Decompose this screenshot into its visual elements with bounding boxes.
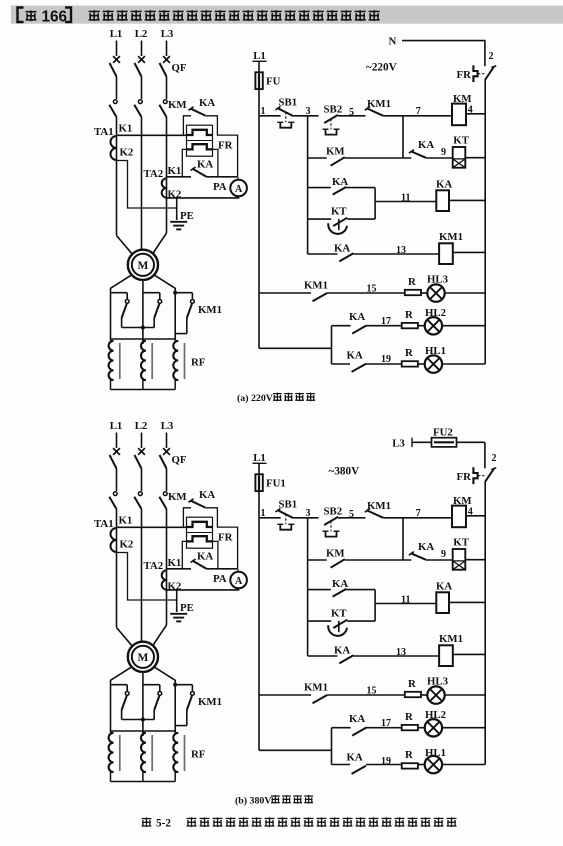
wire KM1 coil to rail (control b) [453,653,485,655]
svg-text:QF: QF [172,62,187,74]
frequency-sensitive rheostat RF (b) [111,730,176,732]
wire parallel join (control b) [374,590,376,622]
svg-text:K1: K1 [168,165,182,177]
svg-text:SB2: SB2 [324,104,343,116]
wire rotor right (a) [154,275,175,339]
wire PE drop (a) [176,198,178,220]
svg-text:TA2: TA2 [144,168,164,180]
terminal x-mark (b) [138,448,145,455]
contactor coil KM (control b) [452,506,466,528]
resistor R row HL1 (control a) [402,361,418,366]
svg-text:KM: KM [453,495,472,507]
svg-text:KT: KT [331,608,347,620]
svg-text:K1: K1 [168,557,182,569]
wire heater2 left leg (a) [182,149,186,176]
wire RF bottom bus (a) [111,389,176,391]
svg-text:QF: QF [172,454,187,466]
wire lamp branch vertical (control a) [331,326,333,364]
wire L2 down (a) [141,117,143,250]
lamp HL2 (control b) [418,727,425,729]
svg-text:11: 11 [401,594,410,605]
wire rotor middle (a) [142,280,144,344]
svg-text:K2: K2 [120,539,134,551]
svg-text:15: 15 [367,685,377,696]
svg-text:L3: L3 [161,420,174,432]
svg-text:19: 19 [381,354,391,365]
wire rotor left (a) [111,275,132,339]
relay contact KA (CT lower) (b) [191,559,196,563]
wire lamp branch vertical (control b) [331,728,333,765]
svg-text:L3: L3 [161,28,174,40]
time relay coil KT (control a) [453,147,466,168]
wire phase stub (a) [141,41,143,57]
time relay coil KT (control b) [453,549,466,570]
svg-text:KA: KA [334,644,350,656]
wire to KA coil (control a) [375,201,436,203]
svg-text:N: N [389,36,397,48]
signal row HL3: contact KM1 (control a) [259,292,311,294]
current transformer TA1 (b) [111,528,117,552]
wire motor feeds (a) [117,236,133,254]
wire TA1 K2 tap (b) [117,553,177,601]
title bar background [11,6,563,24]
wire TA2 K1 tap (a) [167,176,192,178]
wire KM coil to rail (control a) [466,113,485,115]
frequency-sensitive rheostat RF (a) [111,338,176,340]
signal row HL2: contact KA (control a) [332,325,351,327]
svg-text:FR: FR [218,532,233,544]
wire node3 rail (control b) [307,518,309,656]
current transformer TA2 (a) [162,178,167,197]
svg-text:KM1: KM1 [198,696,222,708]
wire L1 rail upper (control b) [258,463,260,750]
self-hold contact KM (control b) [308,559,327,561]
svg-text:PA: PA [213,573,227,585]
svg-text:KT: KT [453,537,469,549]
svg-text:KA: KA [436,179,452,191]
wire L1 down (b) [116,509,118,628]
svg-text:KM1: KM1 [439,633,463,645]
wire heater2 right leg (b) [213,541,218,568]
svg-text:3: 3 [306,106,311,117]
relay contact KA row3 (control a) [308,187,331,189]
wire FU2 to FR (control b) [484,442,486,468]
svg-text:KA: KA [347,349,363,361]
svg-text:11: 11 [401,192,410,203]
svg-text:SB1: SB1 [279,498,298,510]
svg-text:TA1: TA1 [94,518,114,530]
svg-text:TA1: TA1 [94,126,114,138]
svg-text:M: M [137,652,148,664]
wire L1 rail upper (control a) [258,61,260,348]
svg-text:KA: KA [199,489,215,501]
title text 二次保护自动切除频敏变阻器降压启动控制电路 [89,10,100,21]
svg-text:13: 13 [396,245,406,256]
terminal x-mark (b) [113,448,120,455]
thermal relay FR heaters box (b) [187,517,213,548]
svg-text:HL1: HL1 [425,345,446,357]
svg-text:(a) 220V: (a) 220V [237,393,274,404]
wire rung1 c-coil (control b) [384,517,453,519]
signal row HL1: contact KA (control b) [332,764,351,766]
svg-text:R: R [408,678,416,690]
svg-text:M: M [137,260,148,272]
wire L3 down (b) [166,509,168,625]
wire rung1 b-c (control b) [338,517,366,519]
wire L1 down (a) [116,117,118,236]
wire lamp feeder (control a) [259,347,332,349]
svg-text:HL1: HL1 [425,747,446,759]
wire PA bottom / TA2 K2 return (b) [167,588,239,590]
relay contact KA row4 (control a) [308,253,338,255]
svg-text:L1: L1 [253,50,266,62]
signal row HL1: contact KA (control a) [332,363,351,365]
terminal x-mark (a) [113,56,120,63]
terminal tick L1 (control a) [253,60,267,62]
svg-text:SB1: SB1 [279,96,298,108]
relay contact KA (CT lower) (a) [191,167,196,171]
svg-text:7: 7 [416,508,421,519]
svg-text:R: R [408,276,416,288]
svg-text:FR: FR [218,140,233,152]
relay contact KA (CT upper) (b) [183,508,191,528]
terminal x-mark (a) [163,56,170,63]
motor M (b) [128,642,158,672]
svg-text:17: 17 [381,316,391,327]
svg-text:166: 166 [42,8,68,25]
svg-text:KM: KM [168,491,187,503]
svg-text:9: 9 [441,549,446,560]
fuse FU2 (control b) [412,441,485,443]
relay contact KA row4 (control b) [308,655,338,657]
svg-text:(b) 380V: (b) 380V [235,796,272,807]
svg-text:KM: KM [453,93,472,105]
svg-text:17: 17 [381,718,391,729]
svg-text:HL2: HL2 [425,307,446,319]
wire rotor right (b) [154,667,175,731]
terminal x-mark (b) [163,448,170,455]
wire phase stub (b) [166,433,168,449]
svg-text:HL3: HL3 [427,273,449,285]
svg-text:KA: KA [332,578,348,590]
svg-text:HL2: HL2 [425,709,446,721]
svg-text:KA: KA [332,176,348,188]
wire rung1 b-c (control a) [338,115,366,117]
svg-text:L2: L2 [135,28,148,40]
wire node3 rail (control a) [307,116,309,254]
svg-text:K2: K2 [120,147,134,159]
current transformer TA1 (a) [111,136,117,160]
relay coil KA (control b) [436,592,449,613]
svg-text:HL3: HL3 [427,675,449,687]
svg-text:2: 2 [492,453,497,464]
svg-text:KA: KA [347,751,363,763]
svg-text:RF: RF [191,357,206,369]
svg-text:A: A [235,576,243,587]
circuit breaker QF (a) [110,63,117,77]
svg-text:L1: L1 [253,452,266,464]
wire KM1 coil to rail (control a) [453,251,485,253]
svg-text:FR: FR [457,471,472,483]
wire rung1 branch (control a) [402,116,404,158]
thermal relay contact FR (control b) [473,467,477,484]
resistor R row HL2 (control a) [402,323,418,328]
wire L2 down (b) [141,509,143,642]
fuse FU (control a) [255,72,262,89]
lamp HL3 (control b) [421,694,427,696]
contactor coil KM1 (control a) [439,243,453,264]
svg-text:3: 3 [306,508,311,519]
fuse FU1 (control b) [255,474,262,491]
title text 【例 166】 [18,8,24,23]
svg-text:KM1: KM1 [304,280,328,292]
lamp HL1 (control a) [418,363,425,365]
lamp HL2 (control a) [418,325,425,327]
relay contact KA (CT upper) (a) [183,116,191,136]
svg-text:KM1: KM1 [367,98,391,110]
svg-text:RF: RF [191,749,206,761]
lamp HL1 (control b) [418,764,425,766]
svg-text:KM: KM [326,547,345,559]
wire L3 down (a) [166,117,168,233]
svg-text:L1: L1 [110,420,123,432]
svg-text:9: 9 [441,147,446,158]
svg-text:FR: FR [457,69,472,81]
svg-text:KA: KA [349,713,365,725]
wire KA coil to rail (control b) [449,601,485,603]
wire PE drop (b) [176,590,178,612]
svg-text:7: 7 [416,106,421,117]
signal row HL3: contact KM1 (control b) [259,694,311,696]
self-hold contact KM (control a) [308,157,327,159]
svg-text:L3: L3 [392,438,405,450]
contactor coil KM1 (control b) [439,645,453,666]
svg-text:TA2: TA2 [144,560,164,572]
contactor KM1 rotor contacts (a) [111,292,128,294]
svg-text:13: 13 [396,647,406,658]
svg-text:~380V: ~380V [329,466,360,478]
wire rung1 a-b (control a) [293,115,318,117]
svg-text:KA: KA [197,159,213,171]
contactor coil KM (control a) [452,104,466,126]
wire lamp feeder (control b) [259,749,332,751]
relay contact KA row3 (control b) [308,589,331,591]
svg-text:FU: FU [266,76,281,88]
svg-text:PA: PA [213,181,227,193]
ammeter PA (a) [238,177,239,180]
svg-text:~220V: ~220V [366,62,397,74]
svg-text:KM1: KM1 [304,682,328,694]
svg-text:KM: KM [168,99,187,111]
ground PE (a) [170,221,187,223]
resistor R row HL3 (control a) [405,290,421,295]
svg-text:KT: KT [453,135,469,147]
contactor KM main contacts (b) [113,492,117,496]
svg-text:K1: K1 [119,123,133,135]
svg-text:KA: KA [197,551,213,563]
svg-text:PE: PE [180,602,194,614]
wire TA1 K1 tap (b) [117,526,187,528]
svg-text:SB2: SB2 [324,506,343,518]
wire N feed (control a) [402,41,485,67]
wire to KA coil (control b) [375,603,436,605]
wire rung1 c-coil (control a) [384,115,453,117]
motor M (a) [128,250,158,280]
wire TA1 K1 tap (a) [117,134,187,136]
wire parallel join (control a) [374,188,376,220]
wire motor feeds (b) [117,628,133,646]
svg-text:FU2: FU2 [433,426,453,438]
wire right rail (control b) [484,482,486,765]
time contact KT delayed (control b) [308,620,332,622]
wire rotor middle (b) [142,672,144,736]
terminal x-mark (a) [138,56,145,63]
svg-text:KA: KA [199,97,215,109]
svg-text:KA: KA [436,581,452,593]
svg-text:R: R [405,711,413,723]
wire rung1 branch (control b) [402,518,404,560]
wire KT coil to rail (control a) [465,157,485,159]
resistor R row HL3 (control b) [405,692,421,697]
relay coil KA (control a) [436,190,449,211]
wire rung1 a-b (control b) [293,517,318,519]
svg-text:R: R [405,749,413,761]
svg-text:R: R [405,347,413,359]
svg-text:2: 2 [489,51,494,62]
wire phase stub (a) [166,41,168,57]
wire KA coil to rail (control a) [449,199,485,201]
resistor R row HL1 (control b) [402,763,418,768]
svg-text:KM1: KM1 [439,231,463,243]
resistor R row HL2 (control b) [402,725,418,730]
svg-text:15: 15 [367,283,377,294]
wire RF bottom bus (b) [111,781,176,783]
wire TA2 K1 tap (b) [167,568,192,570]
wire phase stub (b) [141,433,143,449]
svg-text:19: 19 [381,756,391,767]
wire phase stub (b) [116,433,118,449]
wire TA1 K2 tap (a) [117,161,177,209]
svg-text:KA: KA [349,311,365,323]
svg-text:KM1: KM1 [367,500,391,512]
signal row HL2: contact KA (control b) [332,727,351,729]
wire right rail (control a) [484,80,486,364]
ground PE (b) [170,613,187,615]
stop button SB1 (control b) [259,517,281,519]
figure caption 图 5-2 二次保护自动切除频敏变阻器降压启动控制电路 [142,818,152,828]
current transformer TA2 (b) [162,570,167,589]
svg-text:K1: K1 [119,515,133,527]
thermal relay FR heaters box (a) [187,125,213,156]
svg-text:PE: PE [180,210,194,222]
wire rotor left (b) [111,667,132,731]
svg-text:L1: L1 [110,28,123,40]
contactor KM main contacts (a) [113,100,117,104]
svg-text:KA: KA [334,242,350,254]
svg-text:K2: K2 [168,581,182,593]
wire KM1 bottom bus (b) [122,719,155,721]
svg-text:KT: KT [331,206,347,218]
svg-text:A: A [235,184,243,195]
wire phase stub (a) [116,41,118,57]
wire PA bottom / TA2 K2 return (a) [167,196,239,198]
stop button SB1 (control a) [259,115,281,117]
terminal tick L1 (control b) [253,462,267,464]
terminal tick L3 (control b) [411,438,413,447]
time contact KT delayed (control a) [308,218,332,220]
ammeter PA (b) [238,569,239,572]
svg-text:KA: KA [418,139,434,151]
svg-text:KM: KM [326,145,345,157]
wire heater2 right leg (a) [213,149,218,176]
wire KM coil to rail (control b) [466,515,485,517]
wire KM1 bottom bus (a) [122,327,155,329]
svg-text:KM1: KM1 [198,304,222,316]
wire KT coil to rail (control b) [465,559,485,561]
svg-text:R: R [405,309,413,321]
contactor KM1 rotor contacts (b) [111,684,128,686]
lamp HL3 (control a) [421,292,427,294]
svg-text:L2: L2 [135,420,148,432]
thermal relay contact FR (control a) [473,65,477,82]
svg-text:KA: KA [418,541,434,553]
circuit breaker QF (b) [110,455,117,469]
svg-text:5-2: 5-2 [156,818,171,830]
svg-text:FU1: FU1 [266,478,286,490]
wire heater2 left leg (b) [182,541,186,568]
